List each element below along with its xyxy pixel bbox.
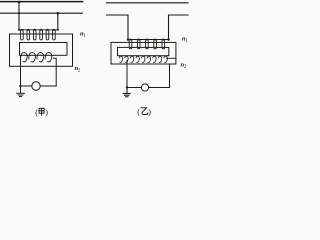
coil: secondary winding n2 loops (乙) xyxy=(119,56,167,62)
transformer T2 core outer rectangle (乙) xyxy=(111,42,176,64)
wire: secondary right exit (甲) xyxy=(54,58,57,86)
wire: right mains line L2 right stub with drop to primary (乙) xyxy=(169,15,189,40)
svg-text:(: ( xyxy=(137,108,140,117)
node: junction dot primary right (乙) xyxy=(167,38,169,40)
node: junction dot at L2 crossing xyxy=(18,12,20,14)
svg-text:1: 1 xyxy=(83,34,86,39)
ground symbol (甲) xyxy=(17,86,25,97)
wire: right mains line L2 left stub with drop to primary (乙) xyxy=(107,15,129,40)
svg-text:1: 1 xyxy=(185,39,188,44)
wire: left mains line L1 (top bus, circuit 甲) xyxy=(0,1,83,3)
transformer T1 core inner rectangle (甲) xyxy=(20,43,68,56)
lamp/meter circle (甲) xyxy=(32,82,40,90)
label n1 (乙) xyxy=(182,36,188,45)
wire: right mains line L1 (top bus, circuit 乙) xyxy=(107,2,189,4)
svg-text:2: 2 xyxy=(78,69,81,74)
wire: drop from L1 to primary left terminal xyxy=(18,2,20,30)
node: junction dot at ground tap (甲) xyxy=(19,85,21,87)
svg-text:): ) xyxy=(45,108,48,117)
transformer T2 core inner rectangle (乙) xyxy=(118,47,169,55)
svg-text:): ) xyxy=(148,108,151,117)
coil: primary winding n1 turns (乙) xyxy=(129,40,164,49)
wire: bottom wire to lamp (乙) xyxy=(127,87,170,89)
coil: primary winding n1 top wire (甲) xyxy=(19,29,58,31)
label n2 (乙) xyxy=(181,62,187,71)
coil: primary winding n1 top wire (乙) xyxy=(128,39,169,41)
label n1 (甲) xyxy=(80,31,86,40)
node: dots on primary wire (甲) xyxy=(18,29,59,31)
node: junction dot L1/drop xyxy=(18,1,21,4)
caption (甲) xyxy=(35,108,48,117)
wire: lamp right riser (乙) xyxy=(169,64,171,88)
node: junction dot primary left (乙) xyxy=(127,38,129,40)
wire: left mains line L2 (second bus, circuit 甲) xyxy=(0,12,83,14)
wire: secondary right exit to n2 (乙) xyxy=(167,57,177,59)
ground symbol (乙) xyxy=(123,88,130,97)
wire: drop from L2 to primary right terminal xyxy=(57,13,59,30)
label n2 (甲) xyxy=(75,65,81,74)
svg-text:(: ( xyxy=(35,108,38,117)
caption (乙) xyxy=(137,108,151,117)
svg-text:2: 2 xyxy=(184,65,187,70)
transformer T1 core outer rectangle (甲) xyxy=(10,34,73,66)
wire: bottom wire to lamp (甲) xyxy=(21,85,57,87)
wire: secondary left terminal down (乙) xyxy=(126,61,128,88)
wire: secondary left terminal down (甲) xyxy=(20,57,22,87)
coil: secondary winding n2 loops (甲) xyxy=(21,53,52,62)
node: junction dot L2/drop xyxy=(57,12,60,15)
lamp/meter circle (乙) xyxy=(141,84,148,91)
node: junction dot at ground tap (乙) xyxy=(126,86,128,88)
node: dots on primary wire (乙) xyxy=(129,38,164,40)
coil: primary winding n1 turns (甲) xyxy=(21,30,56,40)
